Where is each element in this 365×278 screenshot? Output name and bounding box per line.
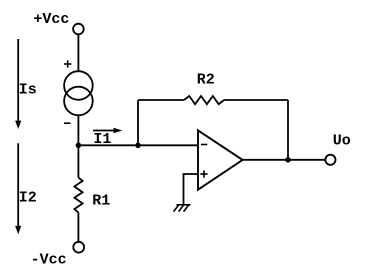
- wire feedback right segment: [224, 99, 288, 101]
- svg-text:Uo: Uo: [333, 132, 351, 149]
- svg-text:I1: I1: [93, 131, 111, 148]
- current arrow I2: [15, 143, 21, 234]
- polarity label - (current source bottom): [64, 122, 70, 124]
- -Vcc terminal: [73, 242, 84, 253]
- op-amp U1: [198, 130, 243, 189]
- svg-text:+Vcc: +Vcc: [33, 11, 69, 28]
- current source Is (two overlapping circles): [64, 71, 93, 115]
- svg-text:I2: I2: [19, 190, 37, 207]
- current arrow I1: [93, 128, 122, 133]
- svg-text:-Vcc: -Vcc: [31, 252, 67, 269]
- node B junction dot (feedback tap): [135, 143, 141, 149]
- resistor R2: [184, 96, 224, 104]
- wire feedback down to output node: [287, 100, 289, 160]
- wire node B up to feedback: [137, 100, 139, 145]
- current arrow Is: [15, 39, 21, 129]
- wire current source to node A: [77, 116, 79, 146]
- svg-text:R1: R1: [92, 193, 110, 210]
- wire +Vcc terminal to current source: [77, 35, 79, 71]
- op-amp inverting input marker -: [201, 144, 207, 146]
- polarity label + (current source top): [64, 60, 71, 67]
- wire op-amp output to Uo terminal: [243, 159, 325, 161]
- wire feedback left segment: [138, 99, 184, 101]
- op-amp non-inverting input marker +: [200, 170, 207, 177]
- +Vcc terminal: [73, 24, 84, 35]
- resistor R1: [74, 145, 82, 241]
- svg-text:Is: Is: [19, 82, 37, 99]
- node A junction dot: [76, 143, 82, 149]
- svg-text:R2: R2: [197, 71, 215, 88]
- wire non-inverting input: [184, 174, 199, 204]
- ground: [174, 205, 191, 212]
- Uo terminal: [325, 155, 335, 165]
- wire node A to op-amp inverting input: [78, 144, 198, 146]
- node C junction dot (output): [285, 157, 291, 163]
